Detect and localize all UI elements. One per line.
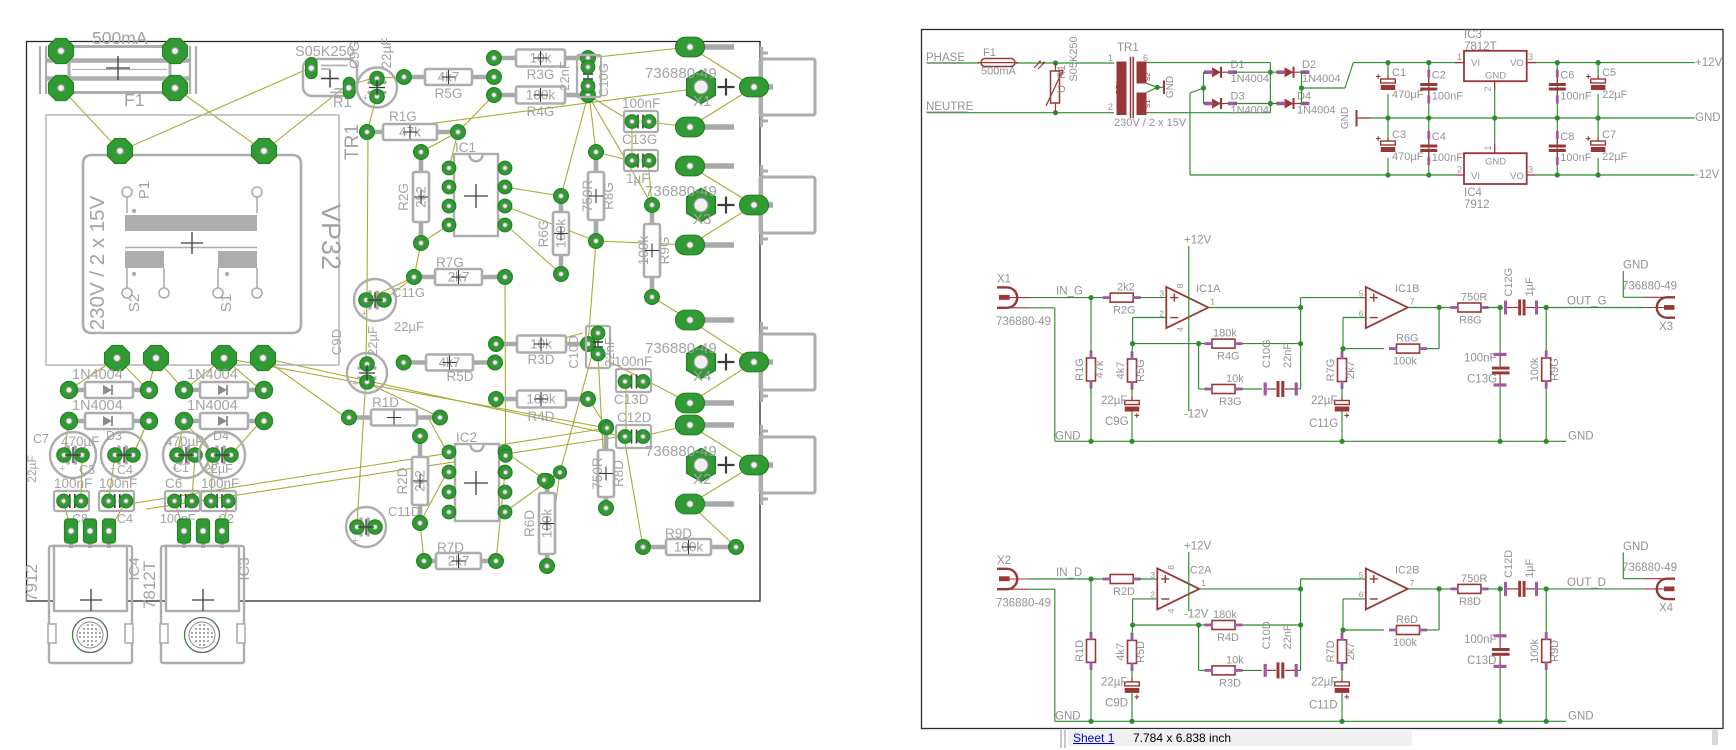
svg-text:4k7: 4k7: [1115, 643, 1127, 661]
label NEUTRE: [926, 101, 974, 113]
capacitor C12D: [616, 410, 652, 448]
svg-text:736880-49: 736880-49: [996, 597, 1051, 609]
net NEUTRE wire: [927, 110, 1114, 115]
svg-text:470µF: 470µF: [1392, 151, 1424, 163]
pad X4 mount: [687, 346, 735, 379]
pad IC2-4: [442, 505, 456, 519]
varistor R1 S05K250: [295, 44, 357, 111]
regulator IC3 7812T package: [160, 546, 245, 663]
pad R1-1: [306, 58, 317, 79]
net secondary top wire: [1147, 63, 1274, 75]
svg-text:R6G: R6G: [1396, 333, 1419, 345]
label R1D: [372, 395, 399, 410]
resistor R6D: [1389, 614, 1427, 649]
svg-text:C4: C4: [1432, 131, 1446, 143]
op-amp IC1B: [1359, 283, 1420, 328]
label X4: [645, 340, 717, 385]
resistor R7D: [1325, 632, 1357, 670]
pad IC1-6: [498, 199, 512, 213]
label +12V opamp: [1184, 541, 1212, 553]
svg-text:4: 4: [1175, 327, 1185, 332]
net opampA out wire: [1208, 298, 1360, 311]
capacitor C13G: [622, 96, 660, 147]
svg-text:100nF: 100nF: [1464, 353, 1497, 365]
resistor R5G: [1115, 352, 1147, 390]
capacitor C12G: [1503, 268, 1538, 316]
svg-text:C3: C3: [1392, 129, 1406, 141]
resistor R3D: [1205, 654, 1245, 689]
net C11-gnd wire: [1339, 412, 1344, 444]
resistor R9G: [1529, 351, 1561, 389]
net +12V rail wire: [1353, 60, 1694, 65]
svg-text:OUT_G: OUT_G: [1567, 296, 1607, 308]
label R1G: [389, 109, 417, 124]
capacitor C3: [1376, 129, 1424, 163]
pad X3 shell top: [676, 156, 735, 176]
net IN wire: [1029, 576, 1104, 581]
pad IC1-5: [498, 218, 512, 232]
fuse F1: [40, 28, 196, 110]
net R6 wires: [1343, 305, 1442, 349]
svg-text:+12V: +12V: [1184, 235, 1212, 247]
capacitor C13G: [1464, 353, 1510, 387]
resistor R9G: [636, 198, 672, 305]
svg-text:1N4004: 1N4004: [1231, 73, 1270, 85]
label X4: [1622, 541, 1677, 615]
svg-text:2: 2: [1457, 165, 1462, 175]
pad X1 shell bottom: [676, 117, 735, 137]
pad F1-2: [163, 39, 188, 64]
airwires ratsnest: [61, 47, 754, 566]
label R7G: [436, 255, 464, 270]
net C2 column wire: [1428, 63, 1430, 175]
svg-text:1µF: 1µF: [1524, 558, 1536, 577]
labels C9: [1101, 395, 1129, 428]
svg-text:100nF: 100nF: [1560, 91, 1591, 103]
capacitor C7: [1586, 129, 1628, 163]
resistor R1G: [1074, 351, 1106, 389]
pad X2 center: [740, 455, 774, 475]
capacitor C12D: [1503, 550, 1538, 597]
pad TR1-S1b: [251, 346, 276, 371]
svg-text:X4: X4: [1659, 602, 1674, 614]
svg-text:R2G: R2G: [1113, 305, 1136, 317]
net opampB out wire: [1408, 307, 1455, 309]
svg-text:C8: C8: [1560, 131, 1574, 143]
svg-text:2k7: 2k7: [1345, 361, 1357, 379]
svg-text:10k: 10k: [1226, 654, 1244, 666]
via C: [554, 466, 567, 479]
net feedback wire: [1130, 589, 1303, 671]
svg-text:230V / 2 x 15V: 230V / 2 x 15V: [1114, 117, 1187, 129]
svg-text:PRI: PRI: [1114, 82, 1123, 95]
resistor R4D: [489, 391, 596, 425]
label GND bus left: [1055, 430, 1081, 442]
capacitor C11D: [1335, 678, 1350, 699]
net R3-C10 wire: [1241, 669, 1301, 671]
pad X2 shell top: [676, 415, 735, 435]
pad X3 mount: [687, 189, 735, 222]
net C6 column wire: [1556, 63, 1558, 175]
transformer TR1: [1108, 42, 1187, 129]
svg-text:180k: 180k: [1213, 328, 1237, 340]
svg-text:750R: 750R: [1461, 292, 1487, 304]
label GND bus left: [1055, 710, 1081, 722]
resistor R8D: [590, 420, 626, 516]
resistor R4G: [487, 87, 596, 120]
svg-text:GND: GND: [1568, 430, 1594, 442]
svg-text:IC1B: IC1B: [1395, 283, 1419, 295]
pad IC1-7: [498, 180, 512, 194]
svg-text:2k2: 2k2: [1117, 282, 1135, 294]
via E: [538, 474, 551, 487]
svg-text:5: 5: [1359, 570, 1364, 580]
pad TR1-S2a: [105, 346, 130, 371]
resistor R6G: [1389, 333, 1427, 368]
svg-text:R2D: R2D: [1113, 586, 1135, 598]
diode D4: [175, 398, 272, 430]
pad IC2-3: [442, 485, 456, 499]
svg-text:2: 2: [1150, 590, 1155, 600]
resistor R5G: [397, 69, 502, 101]
label X2: [645, 443, 717, 488]
svg-text:7: 7: [1410, 578, 1415, 588]
label GND bus right: [1568, 430, 1594, 442]
svg-text:R8G: R8G: [1459, 315, 1482, 327]
svg-text:GND: GND: [1165, 76, 1176, 98]
svg-text:TR1: TR1: [1117, 42, 1139, 54]
resistor R5D: [396, 355, 502, 371]
svg-text:D1: D1: [1231, 59, 1245, 71]
svg-text:NEUTRE: NEUTRE: [926, 101, 974, 113]
net C1 column wire: [1387, 63, 1389, 175]
net IC4 gnd wire: [1494, 118, 1496, 144]
svg-text:C13D: C13D: [1467, 655, 1496, 667]
op-amp IC2B: [1359, 564, 1420, 609]
resistor R1D: [342, 410, 448, 426]
svg-text:1N4004: 1N4004: [1302, 73, 1341, 85]
varistor R1: [1034, 36, 1080, 112]
svg-text:R7G: R7G: [1325, 359, 1337, 382]
svg-text:R9D: R9D: [1549, 640, 1561, 662]
capacitor C9D: [347, 353, 387, 393]
svg-text:C10D: C10D: [1261, 621, 1273, 649]
net R8-C12 wire: [1486, 305, 1503, 310]
capacitor C11G: [1335, 397, 1350, 418]
svg-text:R4D: R4D: [1217, 632, 1239, 644]
svg-text:R6D: R6D: [1396, 614, 1418, 626]
svg-text:R3D: R3D: [1219, 677, 1241, 689]
net R5 wires: [1131, 625, 1134, 681]
net X3 gnd wire: [1623, 271, 1644, 297]
resistor R8D: [1450, 573, 1488, 608]
net C5 column wire: [1597, 63, 1599, 175]
capacitor C12G: [624, 150, 658, 186]
net C13 column wire: [1499, 589, 1501, 721]
label -12V: [1695, 169, 1720, 181]
svg-text:S05K250: S05K250: [1068, 36, 1080, 81]
resistor R5D: [1115, 633, 1147, 671]
pad X4 shell top: [676, 310, 735, 330]
capacitor C10D: [1261, 621, 1298, 678]
svg-text:180k: 180k: [1213, 609, 1237, 621]
label -12V opamp: [1184, 609, 1209, 621]
svg-text:+12V: +12V: [1184, 541, 1212, 553]
pad IC2-6: [498, 485, 512, 499]
svg-text:-12V: -12V: [1695, 169, 1720, 181]
capacitor C7: [50, 432, 96, 478]
net C9-gnd wire: [1131, 412, 1133, 442]
svg-text:-12V: -12V: [1184, 409, 1209, 421]
op-amp IC1: [454, 140, 498, 236]
svg-text:OUT_D: OUT_D: [1567, 577, 1606, 589]
connector X2: [997, 569, 1030, 589]
diode D2: [60, 398, 157, 430]
svg-text:500mA: 500mA: [981, 66, 1017, 78]
label IN: [1056, 286, 1083, 298]
net R2-opamp wire: [1139, 578, 1157, 580]
label C11G: [392, 285, 425, 334]
svg-text:22µF: 22µF: [1602, 151, 1628, 163]
pad X2 mount: [687, 449, 735, 482]
svg-text:IC2A: IC2A: [1187, 564, 1212, 576]
svg-text:7912: 7912: [1464, 199, 1490, 211]
net GND rail wire: [1371, 115, 1695, 120]
net opampA out wire: [1199, 579, 1360, 592]
pad IC2-7: [498, 465, 512, 479]
svg-text:D3: D3: [1231, 91, 1245, 103]
svg-text:GND: GND: [1623, 541, 1649, 553]
label +12V opamp: [1184, 235, 1212, 247]
diode D2: [1277, 59, 1341, 85]
capacitor C13D: [614, 354, 652, 407]
via B: [499, 466, 512, 479]
connector X3 silkscreen: [760, 165, 815, 245]
resistor R2G: [1103, 282, 1141, 317]
svg-text:IN_G: IN_G: [1056, 286, 1083, 298]
svg-text:100nF: 100nF: [1432, 152, 1463, 164]
pad X1 mount: [687, 71, 735, 104]
label R7D: [437, 540, 464, 555]
net opampB in wires: [1340, 298, 1365, 352]
svg-text:R9G: R9G: [1549, 358, 1561, 381]
svg-text:3: 3: [1528, 165, 1533, 175]
svg-text:X3: X3: [1659, 321, 1673, 333]
svg-text:6: 6: [1359, 308, 1364, 318]
net out wire: [1538, 305, 1644, 310]
label TR1 texts: [86, 124, 363, 330]
svg-text:100nF: 100nF: [1432, 91, 1463, 103]
resistor R4G: [1205, 328, 1243, 363]
net R3-C10 wire: [1241, 388, 1301, 390]
net R5 wires: [1131, 344, 1134, 400]
capacitor C100d: [201, 476, 239, 511]
pad X3 shell bottom: [676, 235, 735, 255]
label X3: [1622, 260, 1677, 334]
regulator IC4: [1455, 144, 1536, 211]
pad IC1-1: [442, 161, 456, 175]
resistor R7G: [407, 269, 513, 285]
svg-text:736880-49: 736880-49: [996, 316, 1051, 328]
capacitor C11D: [346, 507, 386, 547]
svg-text:22µF: 22µF: [1311, 395, 1337, 407]
via D: [601, 422, 614, 435]
net X2 shell wire: [1030, 589, 1055, 721]
net R1 wires: [1090, 579, 1092, 721]
svg-text:1: 1: [1201, 578, 1206, 588]
net feedback wire: [1130, 308, 1303, 390]
svg-text:5: 5: [1359, 289, 1364, 299]
pad R1-2: [343, 77, 354, 98]
resistor R6G: [536, 189, 569, 282]
svg-text:22µF: 22µF: [1101, 395, 1127, 407]
svg-text:IN_D: IN_D: [1056, 567, 1082, 579]
diode D3: [175, 367, 272, 399]
svg-text:C12D: C12D: [1503, 550, 1515, 578]
capacitor C100b: [99, 476, 137, 511]
svg-text:1: 1: [1210, 297, 1215, 307]
svg-text:+12V: +12V: [1695, 57, 1723, 69]
svg-text:R3G: R3G: [1219, 396, 1242, 408]
resistor R9D: [636, 539, 744, 555]
net -12V rail wire: [1190, 172, 1695, 177]
transformer TR1 outline: [46, 115, 339, 365]
svg-text:VO: VO: [1510, 171, 1524, 182]
svg-text:100nF: 100nF: [1464, 634, 1497, 646]
net bridge right wire: [1299, 63, 1353, 104]
svg-text:22nF: 22nF: [1282, 624, 1294, 649]
svg-text:1N4004: 1N4004: [1231, 105, 1270, 117]
svg-text:1: 1: [1457, 52, 1462, 62]
diode D1: [1204, 59, 1269, 85]
capacitor C10D: [566, 326, 617, 369]
label X2: [996, 555, 1051, 610]
labels under 100nF: [72, 512, 234, 526]
label GND bus right: [1568, 710, 1594, 722]
svg-text:F1: F1: [983, 47, 996, 59]
pad IC2-8: [498, 445, 512, 459]
label C9G: [347, 37, 394, 68]
svg-text:VO: VO: [1510, 58, 1524, 69]
svg-text:X1: X1: [997, 274, 1011, 286]
net R6 wires: [1343, 586, 1442, 630]
label -12V opamp: [1184, 409, 1209, 421]
svg-text:47k: 47k: [1094, 360, 1106, 378]
svg-text:1: 1: [1483, 145, 1493, 150]
net GND bus wire: [1055, 439, 1566, 444]
svg-text:22µF: 22µF: [1101, 676, 1127, 688]
resistor R3G: [487, 50, 596, 83]
svg-text:IC3: IC3: [1464, 29, 1482, 41]
svg-text:GND: GND: [1568, 710, 1594, 722]
status bar: [1060, 730, 1062, 748]
svg-text:6: 6: [1359, 590, 1364, 600]
net IC3 gnd wire: [1494, 90, 1496, 118]
svg-text:100k: 100k: [1529, 638, 1541, 662]
svg-text:IC1A: IC1A: [1196, 283, 1221, 295]
resistor R8G: [580, 145, 616, 249]
resistor R8G: [1450, 292, 1488, 327]
net opampB out wire: [1408, 588, 1455, 590]
svg-text:22µF: 22µF: [1311, 676, 1337, 688]
svg-text:C7: C7: [1602, 129, 1616, 141]
svg-text:X2: X2: [997, 555, 1011, 567]
board outline: [27, 42, 761, 602]
svg-text:C11D: C11D: [1309, 699, 1338, 711]
resistor R4D: [1205, 609, 1243, 644]
pad IC1-2: [442, 180, 456, 194]
capacitor C2: [1420, 70, 1463, 104]
fuse F1: [978, 47, 1018, 78]
labels C11: [1309, 676, 1338, 711]
net opamp power wire: [1188, 246, 1190, 411]
pads IC3 legs: [178, 519, 229, 548]
pad TR1-S1a: [212, 346, 237, 371]
svg-text:736880-49: 736880-49: [1622, 281, 1677, 293]
svg-text:C1: C1: [1392, 67, 1406, 79]
resistor R2D: [395, 429, 428, 531]
svg-text:S1: S1: [1145, 100, 1152, 109]
resistor R7D: [417, 553, 504, 569]
pad X1 shell top: [676, 37, 735, 57]
svg-text:GND: GND: [1055, 710, 1081, 722]
svg-text:2: 2: [1483, 86, 1493, 91]
net C9-gnd wire: [1131, 693, 1133, 721]
svg-text:C13G: C13G: [1467, 374, 1497, 386]
svg-text:2: 2: [1159, 308, 1164, 318]
net center tap wire: [1147, 83, 1165, 92]
svg-text:GND: GND: [1485, 71, 1506, 82]
svg-text:8: 8: [1166, 565, 1176, 570]
label OUT: [1567, 296, 1607, 308]
label X1: [645, 65, 717, 110]
svg-text:R1D: R1D: [1074, 640, 1086, 662]
svg-text:22µF: 22µF: [1602, 89, 1628, 101]
diode D4: [1277, 91, 1336, 117]
pad TR1-S2b: [144, 346, 169, 371]
pad IC2-5: [498, 505, 512, 519]
net R2-opamp wire: [1139, 297, 1166, 299]
capacitor C5: [1586, 67, 1628, 101]
svg-text:R4G: R4G: [1217, 351, 1240, 363]
connector X4: [1644, 579, 1675, 599]
label C9D: [329, 326, 380, 356]
net R1 wires: [1090, 298, 1092, 442]
net X4 gnd wire: [1623, 552, 1644, 578]
svg-text:1: 1: [1108, 53, 1113, 63]
label R5D: [446, 369, 473, 384]
connector X4 silkscreen: [760, 322, 815, 402]
net bridge left wire: [1190, 72, 1206, 175]
labels regulators: [22, 557, 253, 609]
svg-text:736880-49: 736880-49: [1622, 562, 1677, 574]
pad IC2-2: [442, 465, 456, 479]
capacitor C6: [1549, 70, 1592, 104]
svg-text:100nF: 100nF: [1560, 152, 1591, 164]
svg-text:R7D: R7D: [1325, 640, 1337, 662]
resistor R6D: [522, 474, 555, 574]
pads IC4 legs: [65, 519, 116, 548]
svg-text:1N4004: 1N4004: [1297, 105, 1336, 117]
pad TR1-P1a: [108, 139, 133, 164]
capacitor C10G: [557, 55, 611, 97]
net R7 wires: [1342, 630, 1343, 681]
svg-text:C9G: C9G: [1105, 416, 1129, 428]
svg-text:100k: 100k: [1393, 356, 1417, 368]
net R9 wires: [1545, 308, 1547, 442]
pad F1-1: [49, 39, 74, 64]
label GND right: [1695, 112, 1721, 124]
